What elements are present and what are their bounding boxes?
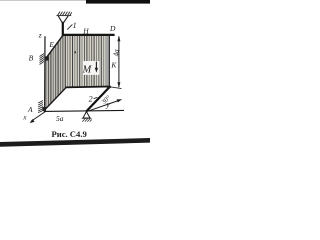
label 1 leader [67, 24, 72, 29]
hinge blob at B [45, 56, 48, 60]
svg-text:D: D [109, 24, 116, 33]
wall hatch at A [38, 101, 43, 113]
ceiling bracket V [58, 16, 68, 23]
ground line [44, 110, 124, 111]
support triangle [83, 112, 90, 118]
ceiling anchor hatch [57, 12, 72, 16]
z axis / wall line [44, 36, 46, 112]
svg-text:В: В [29, 53, 34, 62]
svg-text:К: К [110, 60, 117, 69]
top-right black bar [86, 0, 150, 4]
svg-text:z: z [38, 31, 42, 40]
moment M arrow [95, 62, 97, 71]
plate bottom flat edge P-C [66, 86, 110, 89]
y axis [88, 100, 121, 111]
svg-text:2: 2 [89, 94, 93, 103]
svg-text:Е: Е [48, 40, 54, 49]
hinge blob at rod 2 top joint [108, 86, 111, 89]
moment M white patch [83, 61, 99, 75]
top scan border line [0, 0, 90, 1]
dimension line 4a [118, 36, 120, 87]
rod 1 [62, 22, 64, 36]
svg-text:Рис. С4.9: Рис. С4.9 [52, 129, 87, 139]
plate (hatched face) [45, 35, 106, 110]
plate top edge [62, 34, 115, 36]
label 2 leader [94, 97, 98, 98]
plate top-left diagonal edge B-E [46, 35, 63, 58]
svg-text:1: 1 [73, 21, 77, 30]
plate bottom bevel edge A-P [44, 87, 66, 110]
svg-text:5а: 5а [56, 114, 64, 123]
svg-text:А: А [27, 105, 33, 114]
bottom rule bar [0, 138, 150, 147]
plate right edge double line [106, 36, 108, 88]
svg-text:М: М [82, 64, 93, 75]
dark dot artifact in plate [74, 51, 76, 53]
svg-text:у: у [105, 100, 110, 109]
hinge blob at A [42, 107, 46, 111]
svg-text:Н: Н [82, 26, 89, 35]
rod 2 [86, 87, 110, 112]
extension line at plate bottom-right corner [110, 87, 122, 89]
x axis arrow [31, 112, 45, 122]
darker shading on left part of plate [45, 35, 67, 110]
wall hatch at B [40, 54, 45, 65]
svg-text:4а: 4а [112, 49, 120, 57]
